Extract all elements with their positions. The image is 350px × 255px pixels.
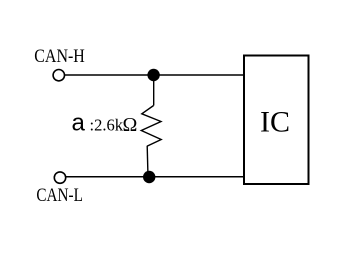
svg-text::2.6k: :2.6k	[90, 116, 124, 135]
svg-text:IC: IC	[260, 106, 290, 139]
svg-text:CAN-L: CAN-L	[36, 185, 83, 206]
svg-text:a: a	[72, 110, 86, 137]
svg-text:Ω: Ω	[123, 114, 138, 136]
svg-text:CAN-H: CAN-H	[34, 46, 85, 67]
